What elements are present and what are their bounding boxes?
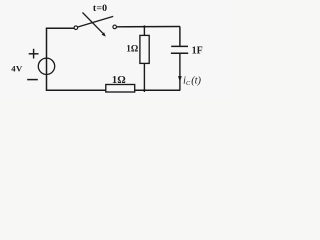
switch SW1 (t=0): left contact (74, 26, 78, 30)
resistor R1 1Ω (vertical): body (140, 35, 149, 63)
wire left vertical (46, 28, 48, 90)
svg-text:1Ω: 1Ω (112, 75, 126, 86)
resistor R1 1Ω (vertical): bottom stub (143, 63, 145, 92)
voltage source V1 (4V) (27, 49, 54, 80)
wire top-right segment (117, 26, 181, 28)
svg-text:4V: 4V (11, 64, 23, 74)
junction: R1 stub to bottom wire (143, 89, 146, 91)
wire capacitor branch top drop (179, 27, 181, 47)
svg-text:1F: 1F (192, 46, 203, 57)
resistor R2 1Ω (bottom): body (106, 85, 135, 93)
svg-text:1Ω: 1Ω (126, 43, 138, 53)
switch SW1: blade (78, 16, 113, 27)
wire bottom-right segment (135, 89, 181, 91)
resistor R1 1Ω (vertical): top stub (143, 25, 145, 35)
switch SW1: motion arrow (83, 13, 106, 37)
svg-text:(t): (t) (191, 76, 201, 87)
svg-text:t=0: t=0 (93, 3, 107, 14)
current arrow i_C(t) (178, 76, 182, 82)
switch SW1: right contact (113, 25, 117, 29)
wire top-left segment (46, 27, 74, 29)
wire bottom-left segment (46, 89, 106, 91)
junction: R1 stub to top wire (143, 26, 145, 28)
capacitor C1 1F: bottom lead (179, 53, 181, 90)
capacitor C1 1F: bottom plate (171, 52, 188, 54)
capacitor C1 1F: top plate (171, 45, 188, 47)
